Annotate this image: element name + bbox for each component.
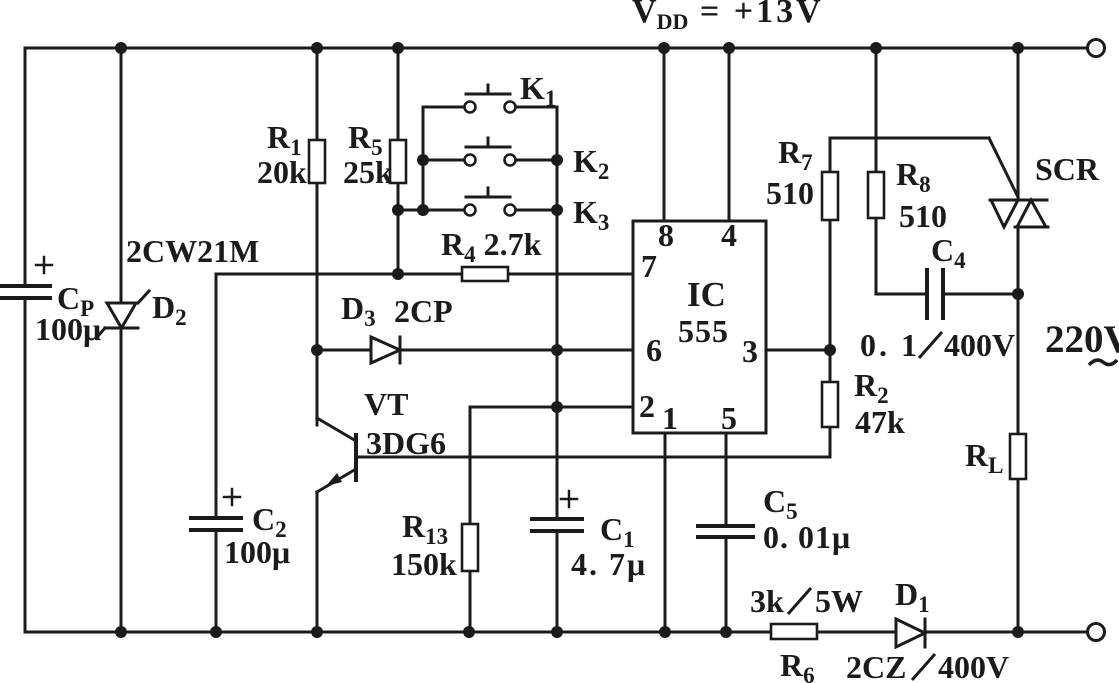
svg-text:IC: IC: [687, 275, 726, 314]
svg-text:5W: 5W: [815, 583, 863, 619]
svg-text:R4 2.7k: R4 2.7k: [441, 226, 542, 267]
svg-text:400V: 400V: [938, 649, 1009, 683]
svg-text:2CW21M: 2CW21M: [126, 233, 259, 269]
svg-text:5: 5: [721, 400, 737, 436]
svg-text:0. 01μ: 0. 01μ: [763, 519, 851, 555]
svg-text:510: 510: [899, 198, 947, 234]
svg-text:555: 555: [678, 313, 729, 349]
svg-text:1: 1: [662, 400, 678, 436]
svg-text:47k: 47k: [855, 404, 905, 440]
svg-text:3k: 3k: [750, 583, 784, 619]
svg-text:3DG6: 3DG6: [366, 425, 446, 461]
svg-text:3: 3: [742, 333, 758, 369]
svg-text:7: 7: [641, 248, 657, 284]
svg-text:2CZ: 2CZ: [846, 649, 906, 683]
svg-text:100μ: 100μ: [224, 534, 290, 570]
svg-text:220V: 220V: [1045, 318, 1119, 361]
svg-text:0. 1: 0. 1: [860, 327, 920, 363]
svg-text:8: 8: [658, 217, 674, 253]
svg-text:400V: 400V: [944, 327, 1015, 363]
svg-text:2CP: 2CP: [394, 293, 453, 329]
svg-text:VT: VT: [364, 386, 408, 422]
svg-text:100μ: 100μ: [35, 311, 101, 347]
svg-text:150k: 150k: [391, 546, 457, 582]
svg-text:510: 510: [766, 175, 814, 211]
svg-text:2: 2: [639, 388, 655, 424]
svg-text:4. 7μ: 4. 7μ: [571, 546, 647, 582]
svg-text:20k: 20k: [257, 154, 307, 190]
svg-text:SCR: SCR: [1035, 151, 1100, 187]
svg-text:6: 6: [646, 332, 662, 368]
svg-text:25k: 25k: [343, 154, 393, 190]
svg-text:4: 4: [721, 217, 737, 253]
